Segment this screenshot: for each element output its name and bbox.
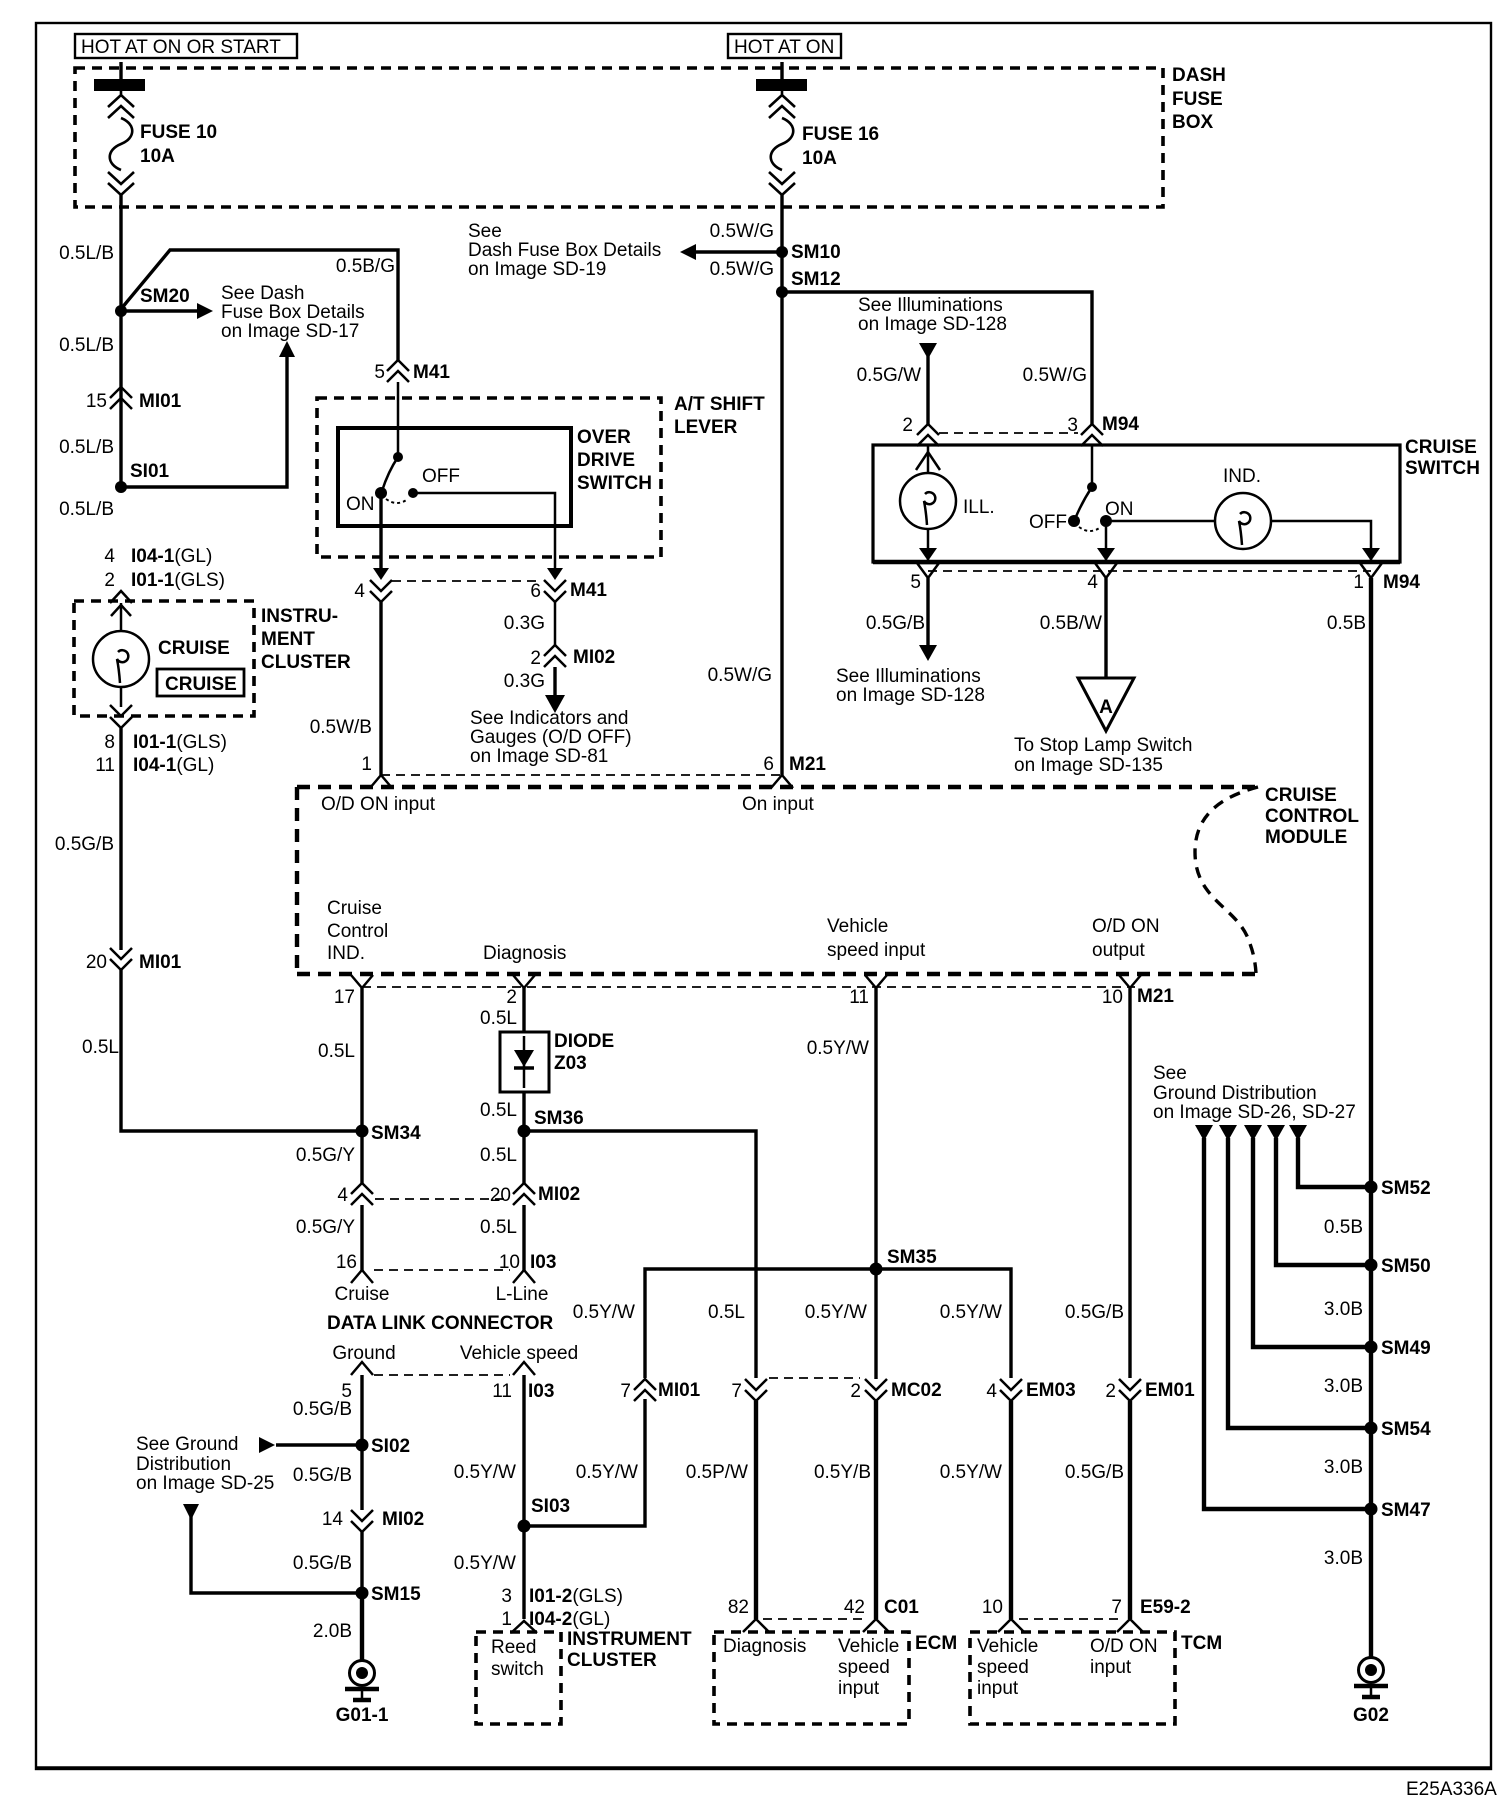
svg-text:0.3G: 0.3G	[504, 671, 545, 692]
svg-text:7: 7	[731, 1381, 742, 1402]
connector MI01 pin 15	[86, 387, 182, 412]
wire DLC pin5 to SI02	[293, 1375, 362, 1445]
svg-text:14: 14	[322, 1509, 344, 1530]
svg-text:speed: speed	[838, 1657, 890, 1678]
switch cruise on-off	[1029, 446, 1134, 533]
svg-text:0.5L: 0.5L	[318, 1041, 355, 1062]
svg-text:SM12: SM12	[791, 269, 841, 290]
svg-text:Diagnosis: Diagnosis	[483, 943, 566, 964]
svg-text:4: 4	[1087, 572, 1098, 593]
wire cluster to MI01 pin 20	[55, 728, 121, 950]
svg-text:MI01: MI01	[139, 391, 182, 412]
node SM49	[1324, 1338, 1431, 1397]
wire ground feed to SM49	[1244, 1125, 1371, 1347]
svg-text:CRUISE: CRUISE	[1265, 785, 1337, 806]
svg-text:SM47: SM47	[1381, 1500, 1431, 1521]
svg-text:1: 1	[1353, 572, 1364, 593]
cruise control module box	[297, 785, 1359, 974]
svg-text:BOX: BOX	[1172, 112, 1214, 133]
svg-text:Vehicle speed: Vehicle speed	[460, 1343, 578, 1364]
svg-text:0.5G/W: 0.5G/W	[857, 365, 921, 386]
svg-text:3: 3	[501, 1586, 512, 1607]
connector MI01 pin 20	[86, 948, 182, 973]
wire OD switch OFF to M41 pin 6	[413, 493, 563, 580]
svg-text:2: 2	[1105, 1381, 1116, 1402]
svg-text:10: 10	[1102, 987, 1123, 1008]
svg-text:0.5W/G: 0.5W/G	[710, 259, 774, 280]
wire SM36 to MI02 pin 20	[480, 1131, 524, 1183]
svg-text:Diagnosis: Diagnosis	[723, 1636, 806, 1657]
svg-text:1: 1	[361, 754, 372, 775]
connector MI02 pin 14	[322, 1509, 424, 1532]
svg-text:0.5G/B: 0.5G/B	[293, 1399, 352, 1420]
svg-text:4: 4	[986, 1381, 997, 1402]
svg-text:Cruise: Cruise	[335, 1284, 390, 1305]
svg-text:See: See	[468, 221, 502, 242]
connector I01-2/I04-2 pins	[501, 1586, 623, 1633]
svg-text:0.5L: 0.5L	[480, 1100, 517, 1121]
label HOT AT ON	[728, 34, 841, 58]
svg-text:0.5L: 0.5L	[480, 1217, 517, 1238]
wire SM35 to ECM pin 42	[814, 1269, 876, 1619]
svg-text:I04-1(GL): I04-1(GL)	[133, 755, 214, 776]
wire M41-6 to MI02 pin 2	[504, 602, 555, 645]
svg-text:CRUISE: CRUISE	[1405, 437, 1477, 458]
svg-text:CLUSTER: CLUSTER	[261, 652, 351, 673]
fuse FUSE 10 10A	[94, 62, 217, 195]
svg-text:10A: 10A	[140, 146, 175, 167]
label HOT AT ON OR START	[75, 34, 297, 58]
wire illumination feed to M94 pin 2	[857, 295, 1007, 424]
svg-text:Distribution: Distribution	[136, 1454, 231, 1475]
svg-text:INSTRUMENT: INSTRUMENT	[567, 1629, 692, 1650]
svg-text:input: input	[1090, 1657, 1132, 1678]
connector EM03 pin 4	[986, 1379, 1075, 1402]
connector M41 pin 5	[374, 360, 450, 383]
svg-text:I03: I03	[528, 1381, 554, 1402]
lamp IND	[1106, 466, 1271, 549]
svg-text:0.5Y/W: 0.5Y/W	[454, 1553, 516, 1574]
wire SM35 branch line	[573, 1269, 1011, 1378]
svg-text:SM36: SM36	[534, 1108, 584, 1129]
node SM12	[776, 269, 841, 298]
svg-text:15: 15	[86, 391, 107, 412]
module output labels	[327, 898, 1160, 964]
node SI02	[136, 1434, 410, 1494]
svg-text:0.5B/G: 0.5B/G	[336, 256, 395, 277]
svg-text:DATA LINK CONNECTOR: DATA LINK CONNECTOR	[327, 1313, 554, 1334]
instrument cluster label (bottom)	[567, 1629, 692, 1671]
wire OD switch ON to M41 pin 4	[373, 493, 389, 580]
svg-text:on Image SD-26, SD-27: on Image SD-26, SD-27	[1153, 1102, 1356, 1123]
svg-text:CRUISE: CRUISE	[158, 638, 230, 659]
svg-text:SI01: SI01	[130, 461, 170, 482]
wire fuse16 to module pin 6	[708, 195, 782, 775]
node SM47	[1324, 1500, 1431, 1569]
svg-text:0.5W/G: 0.5W/G	[1023, 365, 1087, 386]
svg-text:0.5B/W: 0.5B/W	[1040, 613, 1102, 634]
node SM34	[356, 1123, 422, 1144]
tcm box	[970, 1632, 1222, 1724]
wire ground feed to SM50	[1267, 1125, 1371, 1265]
svg-text:0.5G/B: 0.5G/B	[1065, 1462, 1124, 1483]
svg-text:SM54: SM54	[1381, 1419, 1431, 1440]
connector I03 pins 16 and 10	[336, 1252, 557, 1283]
svg-text:6: 6	[763, 754, 774, 775]
svg-text:SM52: SM52	[1381, 1178, 1431, 1199]
connector MI02 pin 2	[530, 645, 615, 669]
svg-text:M41: M41	[570, 580, 607, 601]
svg-text:0.5G/B: 0.5G/B	[293, 1465, 352, 1486]
svg-text:1: 1	[501, 1609, 512, 1630]
svg-text:OVER: OVER	[577, 427, 631, 448]
svg-text:0.5Y/W: 0.5Y/W	[807, 1038, 869, 1059]
svg-text:0.5Y/W: 0.5Y/W	[805, 1302, 867, 1323]
wire SI03 to reed switch	[454, 1526, 524, 1619]
svg-text:0.5Y/B: 0.5Y/B	[814, 1462, 871, 1483]
wire EM03-4 to TCM pin 10	[940, 1401, 1011, 1619]
svg-text:5: 5	[374, 362, 385, 383]
svg-text:SI03: SI03	[531, 1496, 570, 1517]
A/T shift lever box	[317, 394, 765, 557]
svg-text:input: input	[838, 1678, 880, 1699]
svg-text:I01-2(GLS): I01-2(GLS)	[529, 1586, 623, 1607]
svg-text:FUSE 10: FUSE 10	[140, 122, 217, 143]
wire MI02-2 to indicators note	[470, 667, 632, 767]
over drive switch box	[338, 427, 652, 526]
svg-text:Vehicle: Vehicle	[977, 1636, 1038, 1657]
svg-text:SM15: SM15	[371, 1584, 421, 1605]
wire M94-5 to illuminations note	[836, 578, 985, 706]
svg-text:42: 42	[844, 1597, 865, 1618]
svg-text:M21: M21	[1137, 986, 1174, 1007]
svg-text:Gauges (O/D OFF): Gauges (O/D OFF)	[470, 727, 632, 748]
svg-text:Vehicle: Vehicle	[827, 916, 888, 937]
svg-text:on Image SD-128: on Image SD-128	[858, 314, 1007, 335]
svg-text:Ground: Ground	[332, 1343, 395, 1364]
svg-text:INSTRU-: INSTRU-	[261, 606, 338, 627]
svg-text:switch: switch	[491, 1659, 544, 1680]
wire ground feed to SM54	[1219, 1125, 1371, 1428]
svg-text:FUSE 16: FUSE 16	[802, 124, 879, 145]
wire M94-1 0.5B down right side	[1327, 578, 1371, 1658]
switch overdrive contacts	[346, 382, 460, 515]
svg-text:Reed: Reed	[491, 1637, 536, 1658]
wire cruise ON to M94 pin 4	[1097, 521, 1115, 561]
wire M94-4 to stop lamp switch	[1040, 578, 1106, 678]
svg-text:on Image SD-135: on Image SD-135	[1014, 755, 1163, 776]
wire SI01 up-arrow to SD-17 note	[121, 341, 295, 487]
svg-text:MI01: MI01	[658, 1380, 701, 1401]
svg-text:MODULE: MODULE	[1265, 827, 1347, 848]
svg-text:SM10: SM10	[791, 242, 841, 263]
svg-text:E25A336A: E25A336A	[1406, 1779, 1497, 1800]
wire fuse10 to SI01	[59, 195, 121, 520]
wire SM36 to MC02 pin 7	[524, 1131, 756, 1378]
svg-text:10A: 10A	[802, 148, 837, 169]
wire SI02 to MI02 pin 14	[293, 1445, 362, 1510]
svg-text:0.5L/B: 0.5L/B	[59, 335, 114, 356]
svg-text:EM03: EM03	[1026, 1380, 1076, 1401]
wire module pin2 to diode	[480, 988, 524, 1032]
connector M21 pins 1 and 6	[370, 754, 826, 788]
svg-text:17: 17	[334, 987, 355, 1008]
svg-text:I04-1(GL): I04-1(GL)	[131, 546, 212, 567]
svg-text:SM35: SM35	[887, 1247, 937, 1268]
svg-text:M21: M21	[789, 754, 826, 775]
svg-text:M41: M41	[413, 362, 450, 383]
svg-text:To Stop Lamp Switch: To Stop Lamp Switch	[1014, 735, 1192, 756]
svg-text:3.0B: 3.0B	[1324, 1299, 1363, 1320]
connector C01 pins 82 and 42	[728, 1597, 919, 1632]
svg-text:0.5W/G: 0.5W/G	[710, 221, 774, 242]
wire SM20 branch to M41 pin 5	[121, 250, 398, 360]
svg-text:0.5Y/W: 0.5Y/W	[573, 1302, 635, 1323]
svg-text:2: 2	[850, 1381, 861, 1402]
svg-text:on Image SD-17: on Image SD-17	[221, 321, 359, 342]
svg-text:0.5L: 0.5L	[480, 1008, 517, 1029]
svg-text:3.0B: 3.0B	[1324, 1548, 1363, 1569]
ecm box	[714, 1632, 957, 1724]
svg-text:0.5L: 0.5L	[708, 1302, 745, 1323]
svg-text:CLUSTER: CLUSTER	[567, 1650, 657, 1671]
svg-text:I04-2(GL): I04-2(GL)	[529, 1609, 610, 1630]
svg-text:2.0B: 2.0B	[313, 1621, 352, 1642]
wire MC02-7 to ECM pin 82	[686, 1401, 756, 1619]
wire SM12 to M94 pin 3	[782, 292, 1092, 424]
instrument cluster box (top)	[74, 601, 351, 716]
connector MI01 pin 7	[620, 1379, 700, 1402]
wire SM34 to MI02 pin 4	[296, 1131, 362, 1183]
svg-text:0.5W/G: 0.5W/G	[708, 665, 772, 686]
svg-text:0.5L/B: 0.5L/B	[59, 437, 114, 458]
svg-text:output: output	[1092, 940, 1146, 961]
svg-text:LEVER: LEVER	[674, 417, 738, 438]
svg-text:MI01: MI01	[139, 952, 182, 973]
svg-text:M94: M94	[1102, 414, 1139, 435]
svg-text:MI02: MI02	[573, 647, 615, 668]
svg-text:OFF: OFF	[1029, 512, 1067, 533]
svg-text:3.0B: 3.0B	[1324, 1376, 1363, 1397]
svg-text:ON: ON	[346, 494, 375, 515]
connector M21 pins 17 2 11 10	[334, 975, 1175, 1008]
svg-text:0.5Y/W: 0.5Y/W	[940, 1462, 1002, 1483]
connector E59-2 pins 10 and 7	[982, 1597, 1191, 1632]
data link connector labels	[327, 1284, 578, 1364]
svg-text:C01: C01	[884, 1597, 919, 1618]
svg-text:See Indicators and: See Indicators and	[470, 708, 628, 729]
svg-text:O/D ON input: O/D ON input	[321, 794, 436, 815]
lamp ILL	[900, 446, 995, 561]
svg-text:SM34: SM34	[371, 1123, 421, 1144]
label box CRUISE	[157, 669, 244, 696]
connector I04-1/I01-1 top pins	[104, 546, 225, 616]
svg-text:speed input: speed input	[827, 940, 926, 961]
connector I03 pins 5 and 11	[341, 1362, 554, 1402]
svg-text:I03: I03	[530, 1252, 556, 1273]
wire diode to SM36	[480, 1092, 524, 1131]
svg-text:2: 2	[530, 648, 541, 669]
label E25A336A	[1406, 1779, 1497, 1800]
connector M94 pins 2 and 3	[902, 414, 1139, 446]
svg-text:10: 10	[982, 1597, 1003, 1618]
svg-text:SWITCH: SWITCH	[577, 473, 652, 494]
svg-text:0.5Y/W: 0.5Y/W	[576, 1462, 638, 1483]
svg-text:L-Line: L-Line	[496, 1284, 549, 1305]
svg-text:0.5B: 0.5B	[1324, 1217, 1363, 1238]
svg-text:O/D ON: O/D ON	[1090, 1636, 1158, 1657]
node SM10	[468, 221, 841, 280]
svg-text:0.5G/B: 0.5G/B	[293, 1553, 352, 1574]
svg-text:20: 20	[86, 952, 107, 973]
ground G01-1	[336, 1661, 389, 1727]
svg-text:G01-1: G01-1	[336, 1705, 389, 1726]
svg-text:OFF: OFF	[422, 466, 460, 487]
svg-text:I01-1(GLS): I01-1(GLS)	[133, 732, 227, 753]
svg-text:See: See	[1153, 1063, 1187, 1084]
svg-text:SI02: SI02	[371, 1436, 410, 1457]
svg-text:4: 4	[354, 581, 365, 602]
svg-text:MI02: MI02	[382, 1509, 424, 1530]
svg-text:CONTROL: CONTROL	[1265, 806, 1359, 827]
svg-text:See Illuminations: See Illuminations	[858, 295, 1003, 316]
svg-text:E59-2: E59-2	[1140, 1597, 1191, 1618]
svg-text:MENT: MENT	[261, 629, 315, 650]
wire module pin10 to EM01 pin 2	[1065, 988, 1130, 1378]
svg-text:DRIVE: DRIVE	[577, 450, 635, 471]
svg-text:0.5W/B: 0.5W/B	[310, 717, 372, 738]
svg-text:Vehicle: Vehicle	[838, 1636, 899, 1657]
svg-text:EM01: EM01	[1145, 1380, 1195, 1401]
svg-text:TCM: TCM	[1181, 1633, 1222, 1654]
svg-text:20: 20	[490, 1185, 511, 1206]
svg-text:IND.: IND.	[327, 943, 365, 964]
connector M94 pins 5 4 1	[910, 563, 1420, 593]
wire MI02-14 to SM15	[293, 1532, 362, 1593]
svg-text:HOT AT ON: HOT AT ON	[734, 37, 834, 58]
connector M41 pins 4 and 6	[354, 580, 607, 602]
wire ground feed to SM52	[1289, 1125, 1371, 1187]
reed switch box	[476, 1632, 561, 1724]
svg-text:HOT AT ON OR START: HOT AT ON OR START	[81, 37, 281, 58]
svg-text:M94: M94	[1383, 572, 1420, 593]
svg-text:On input: On input	[742, 794, 815, 815]
svg-text:0.5Y/W: 0.5Y/W	[940, 1302, 1002, 1323]
cruise switch box	[873, 437, 1480, 562]
node SM15	[356, 1584, 422, 1605]
lamp CRUISE indicator	[93, 603, 230, 707]
svg-text:on Image SD-25: on Image SD-25	[136, 1473, 274, 1494]
node SM50	[1324, 1256, 1431, 1320]
node A to stop lamp switch	[1014, 678, 1192, 776]
svg-text:0.5G/B: 0.5G/B	[866, 613, 925, 634]
svg-text:Fuse Box Details: Fuse Box Details	[221, 302, 365, 323]
svg-text:0.5G/B: 0.5G/B	[1065, 1302, 1124, 1323]
wire MI02-4 to DLC pin 16	[296, 1205, 362, 1272]
node SM52	[1324, 1178, 1431, 1238]
svg-text:5: 5	[910, 572, 921, 593]
svg-text:10: 10	[499, 1252, 520, 1273]
ground G02	[1353, 1658, 1389, 1727]
svg-text:on Image SD-128: on Image SD-128	[836, 685, 985, 706]
svg-text:CRUISE: CRUISE	[165, 674, 237, 695]
svg-text:0.5L: 0.5L	[82, 1037, 119, 1058]
svg-text:O/D ON: O/D ON	[1092, 916, 1160, 937]
svg-text:FUSE: FUSE	[1172, 89, 1223, 110]
wire module pin17 to SM34	[318, 988, 362, 1131]
svg-text:2: 2	[506, 987, 517, 1008]
node SI03	[518, 1496, 571, 1533]
wire SI03 to MI01 pin 7	[524, 1399, 645, 1526]
svg-text:0.5P/W: 0.5P/W	[686, 1462, 748, 1483]
svg-text:16: 16	[336, 1252, 357, 1273]
svg-text:2: 2	[104, 570, 115, 591]
svg-text:SM49: SM49	[1381, 1338, 1431, 1359]
svg-text:ILL.: ILL.	[963, 497, 995, 518]
wire M41-4 to module pin 1	[310, 602, 381, 775]
wire MI01-20 to SM34	[82, 968, 361, 1131]
connector I01-1/I04-1 bottom pins	[95, 705, 227, 776]
connector MC02 pins 7 and 2	[731, 1378, 941, 1402]
svg-text:SWITCH: SWITCH	[1405, 458, 1480, 479]
svg-text:G02: G02	[1353, 1705, 1389, 1726]
node SM35	[870, 1247, 938, 1276]
svg-text:Control: Control	[327, 921, 388, 942]
svg-text:input: input	[977, 1678, 1019, 1699]
svg-text:SM50: SM50	[1381, 1256, 1431, 1277]
svg-text:See Dash: See Dash	[221, 283, 304, 304]
svg-text:0.5G/Y: 0.5G/Y	[296, 1145, 355, 1166]
svg-text:Z03: Z03	[554, 1053, 587, 1074]
wire DLC pin11 to SI03	[454, 1375, 524, 1526]
svg-text:See Illuminations: See Illuminations	[836, 666, 981, 687]
svg-text:A: A	[1099, 697, 1113, 718]
svg-text:on Image SD-81: on Image SD-81	[470, 746, 608, 767]
wire MI02-20 to DLC pin 10	[480, 1205, 524, 1272]
svg-text:MI02: MI02	[538, 1184, 580, 1205]
svg-text:4: 4	[104, 546, 115, 567]
svg-text:0.5L/B: 0.5L/B	[59, 243, 114, 264]
svg-text:on Image SD-19: on Image SD-19	[468, 259, 606, 280]
diode Z03	[500, 1031, 614, 1092]
svg-text:0.5G/Y: 0.5G/Y	[296, 1217, 355, 1238]
wire ground feed to SM47	[1195, 1125, 1371, 1509]
svg-text:11: 11	[849, 987, 869, 1008]
svg-text:0.3G: 0.3G	[504, 613, 545, 634]
svg-text:0.5G/B: 0.5G/B	[55, 834, 114, 855]
wire SM15 ground distribution branch	[183, 1504, 362, 1593]
svg-text:0.5Y/W: 0.5Y/W	[454, 1462, 516, 1483]
svg-text:speed: speed	[977, 1657, 1029, 1678]
svg-text:11: 11	[492, 1381, 512, 1402]
connector EM01 pin 2	[1105, 1379, 1195, 1402]
svg-text:0.5L: 0.5L	[480, 1145, 517, 1166]
ground distribution note right	[1153, 1063, 1356, 1123]
node SM54	[1324, 1419, 1431, 1478]
svg-text:ECM: ECM	[915, 1633, 957, 1654]
module input labels	[321, 794, 815, 815]
svg-text:8: 8	[104, 732, 115, 753]
svg-text:6: 6	[530, 581, 541, 602]
svg-text:Cruise: Cruise	[327, 898, 382, 919]
svg-text:11: 11	[95, 755, 115, 776]
wire IND to M94 pin 1	[1271, 521, 1380, 561]
svg-text:7: 7	[620, 1381, 631, 1402]
svg-text:3: 3	[1067, 415, 1078, 436]
svg-text:SM20: SM20	[140, 286, 190, 307]
svg-text:Ground Distribution: Ground Distribution	[1153, 1083, 1317, 1104]
wire SM15 to G01-1	[313, 1593, 362, 1662]
